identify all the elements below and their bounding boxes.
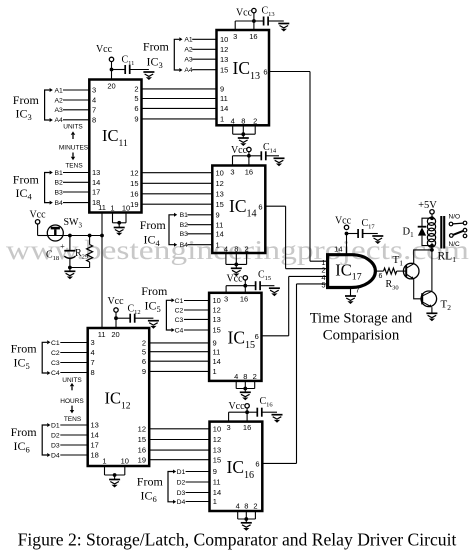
svg-text:D2: D2: [51, 432, 60, 439]
svg-text:D1: D1: [177, 469, 186, 476]
svg-text:2: 2: [253, 502, 257, 511]
svg-text:B1: B1: [55, 170, 64, 177]
svg-text:3: 3: [230, 168, 234, 177]
svg-text:Time Storage and: Time Storage and: [310, 311, 413, 327]
svg-text:4: 4: [234, 372, 238, 381]
svg-text:Comparision: Comparision: [323, 328, 400, 344]
svg-text:C2: C2: [175, 307, 184, 314]
svg-text:1: 1: [220, 115, 224, 124]
svg-text:15: 15: [220, 65, 228, 74]
svg-text:12: 12: [213, 435, 221, 444]
svg-text:13: 13: [220, 55, 228, 64]
svg-text:HOURS: HOURS: [60, 398, 84, 405]
svg-text:C3: C3: [51, 360, 60, 367]
svg-text:8: 8: [234, 244, 238, 253]
svg-text:3: 3: [224, 295, 228, 304]
svg-text:Vcc: Vcc: [107, 296, 124, 307]
svg-text:10: 10: [213, 296, 221, 305]
svg-text:Vcc: Vcc: [96, 44, 113, 55]
svg-text:11: 11: [220, 94, 228, 103]
svg-text:14: 14: [213, 488, 221, 497]
svg-text:D3: D3: [51, 442, 60, 449]
svg-text:1: 1: [102, 457, 106, 466]
svg-text:From: From: [140, 218, 167, 232]
svg-text:15: 15: [138, 435, 146, 444]
svg-text:D4: D4: [51, 452, 60, 459]
svg-text:12: 12: [216, 179, 224, 188]
svg-text:19: 19: [138, 455, 146, 464]
svg-text:15: 15: [213, 455, 221, 464]
svg-text:3: 3: [92, 86, 96, 95]
svg-text:B4: B4: [55, 200, 64, 207]
svg-text:B2: B2: [180, 222, 189, 229]
svg-text:16: 16: [243, 423, 251, 432]
svg-text:1: 1: [110, 204, 114, 213]
svg-text:9: 9: [142, 367, 146, 376]
svg-text:11: 11: [213, 478, 221, 487]
svg-text:Figure 2: Storage/Latch, Compa: Figure 2: Storage/Latch, Comparator and …: [18, 530, 457, 550]
svg-text:8: 8: [92, 115, 96, 124]
svg-text:Vcc: Vcc: [231, 145, 248, 156]
svg-text:7: 7: [356, 286, 360, 295]
svg-text:11: 11: [98, 203, 106, 212]
svg-text:C1: C1: [51, 340, 60, 347]
svg-text:B2: B2: [55, 180, 64, 187]
svg-text:13: 13: [91, 421, 99, 430]
svg-text:C4: C4: [175, 327, 184, 334]
svg-text:D2: D2: [177, 479, 186, 486]
svg-text:6: 6: [263, 67, 267, 76]
svg-text:C4: C4: [51, 370, 60, 377]
svg-text:4: 4: [91, 348, 95, 357]
svg-text:19: 19: [130, 200, 138, 209]
svg-text:10: 10: [213, 424, 221, 433]
svg-text:B3: B3: [55, 189, 64, 196]
svg-text:2: 2: [253, 372, 257, 381]
svg-text:13: 13: [213, 315, 221, 324]
svg-text:A3: A3: [55, 107, 64, 114]
svg-text:10: 10: [121, 457, 129, 466]
svg-text:Vcc: Vcc: [236, 8, 253, 19]
svg-text:1: 1: [213, 497, 217, 506]
svg-text:11: 11: [98, 330, 106, 339]
svg-text:3: 3: [233, 32, 237, 41]
svg-text:B4: B4: [180, 242, 189, 249]
svg-text:2: 2: [134, 85, 138, 94]
svg-text:14: 14: [220, 104, 228, 113]
svg-text:From: From: [13, 93, 40, 107]
svg-text:14: 14: [334, 245, 342, 254]
svg-text:6: 6: [258, 202, 262, 211]
svg-text:B3: B3: [180, 231, 189, 238]
svg-text:10: 10: [216, 168, 224, 177]
svg-text:16: 16: [249, 32, 257, 41]
svg-text:A3: A3: [184, 57, 193, 64]
svg-text:UNITS: UNITS: [62, 377, 82, 384]
svg-text:4: 4: [236, 502, 240, 511]
svg-text:9: 9: [220, 85, 224, 94]
svg-text:N/O: N/O: [449, 214, 461, 221]
svg-text:Vcc: Vcc: [335, 216, 352, 227]
svg-text:15: 15: [213, 326, 221, 335]
svg-text:A2: A2: [184, 47, 193, 54]
svg-text:14: 14: [91, 431, 99, 440]
svg-text:6: 6: [379, 273, 383, 280]
svg-text:17: 17: [92, 188, 100, 197]
svg-text:TENS: TENS: [64, 416, 82, 423]
svg-text:5: 5: [142, 347, 146, 356]
svg-text:From: From: [13, 172, 40, 186]
svg-text:8: 8: [241, 116, 245, 125]
svg-text:16: 16: [130, 189, 138, 198]
svg-text:4: 4: [224, 244, 228, 253]
svg-text:13: 13: [92, 168, 100, 177]
svg-text:12: 12: [220, 45, 228, 54]
svg-text:C1: C1: [175, 298, 184, 305]
svg-text:4: 4: [231, 116, 235, 125]
svg-text:15: 15: [216, 200, 224, 209]
svg-text:7: 7: [92, 105, 96, 114]
svg-text:13: 13: [213, 446, 221, 455]
svg-text:8: 8: [244, 502, 248, 511]
svg-text:4: 4: [92, 96, 96, 105]
svg-text:TENS: TENS: [65, 162, 83, 169]
svg-text:A4: A4: [184, 67, 193, 74]
svg-text:3: 3: [91, 338, 95, 347]
svg-text:UNITS: UNITS: [63, 124, 83, 131]
svg-text:16: 16: [245, 168, 253, 177]
svg-text:9: 9: [213, 467, 217, 476]
svg-text:From: From: [11, 342, 38, 356]
svg-text:Vcc: Vcc: [29, 210, 46, 221]
svg-text:9: 9: [213, 339, 217, 348]
svg-text:3: 3: [227, 423, 231, 432]
svg-text:From: From: [137, 474, 164, 488]
svg-text:A1: A1: [55, 87, 64, 94]
svg-text:11: 11: [213, 347, 221, 356]
svg-text:6: 6: [142, 357, 146, 366]
svg-text:From: From: [143, 40, 170, 54]
svg-text:10: 10: [122, 204, 130, 213]
svg-text:2: 2: [253, 116, 257, 125]
svg-text:13: 13: [216, 189, 224, 198]
svg-text:6: 6: [134, 104, 138, 113]
svg-text:18: 18: [91, 451, 99, 460]
svg-text:12: 12: [130, 168, 138, 177]
svg-text:C2: C2: [51, 350, 60, 357]
svg-text:11: 11: [216, 220, 224, 229]
svg-text:2: 2: [142, 339, 146, 348]
svg-text:16: 16: [138, 446, 146, 455]
svg-text:10: 10: [220, 35, 228, 44]
svg-text:9: 9: [134, 115, 138, 124]
svg-text:5: 5: [134, 94, 138, 103]
svg-text:D4: D4: [177, 499, 186, 506]
svg-text:14: 14: [213, 357, 221, 366]
svg-text:6: 6: [255, 459, 259, 468]
svg-text:A4: A4: [55, 117, 64, 124]
svg-text:From: From: [141, 284, 168, 298]
svg-text:Vcc: Vcc: [226, 274, 243, 285]
svg-text:C3: C3: [175, 317, 184, 324]
svg-text:8: 8: [243, 372, 247, 381]
svg-text:MINUTES: MINUTES: [59, 144, 89, 151]
svg-text:2: 2: [245, 244, 249, 253]
svg-text:1: 1: [213, 367, 217, 376]
svg-text:N/C: N/C: [449, 241, 461, 248]
svg-text:A2: A2: [55, 97, 64, 104]
svg-text:14: 14: [92, 178, 100, 187]
svg-text:8: 8: [91, 368, 95, 377]
svg-text:9: 9: [216, 210, 220, 219]
svg-text:14: 14: [216, 229, 224, 238]
svg-text:6: 6: [255, 332, 259, 341]
svg-text:15: 15: [130, 179, 138, 188]
svg-text:A1: A1: [184, 37, 193, 44]
svg-text:1: 1: [216, 240, 220, 249]
svg-text:12: 12: [213, 306, 221, 315]
svg-text:D3: D3: [177, 490, 186, 497]
svg-text:B1: B1: [180, 212, 189, 219]
svg-text:12: 12: [138, 424, 146, 433]
svg-text:20: 20: [107, 82, 115, 91]
svg-text:20: 20: [111, 330, 119, 339]
svg-text:7: 7: [91, 358, 95, 367]
svg-text:16: 16: [240, 295, 248, 304]
svg-text:17: 17: [91, 441, 99, 450]
svg-text:+: +: [60, 242, 65, 251]
svg-text:Vcc: Vcc: [228, 401, 245, 412]
svg-text:5: 5: [321, 281, 325, 290]
svg-text:+5V: +5V: [418, 200, 437, 211]
svg-text:From: From: [11, 425, 38, 439]
svg-text:D1: D1: [51, 422, 60, 429]
